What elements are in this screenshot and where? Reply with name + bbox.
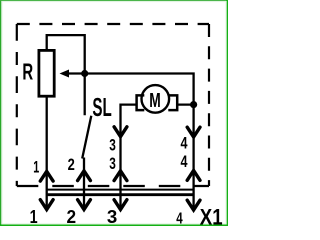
arrow down column 4 (below connector) — [187, 200, 200, 210]
wire: motor right lead to column 4 — [177, 103, 193, 105]
wire: column 1 resistor bottom down to connector — [46, 96, 48, 210]
svg-text:2: 2 — [67, 207, 77, 226]
svg-text:3: 3 — [109, 155, 116, 173]
svg-text:R: R — [22, 59, 33, 85]
connector X1 lower rail — [47, 193, 195, 196]
svg-text:M: M — [149, 89, 161, 112]
wire: column 2 below switch — [83, 158, 85, 210]
svg-text:SL: SL — [92, 94, 111, 122]
arrow up column 2 — [78, 171, 91, 181]
motor M — [137, 85, 178, 113]
wire: column 4 down to connector — [192, 105, 194, 210]
motor circle — [142, 85, 170, 113]
arrow down column 3 (below connector) — [114, 200, 127, 210]
svg-text:X1: X1 — [200, 204, 223, 226]
arrow down column 2 (below connector) — [78, 200, 91, 210]
svg-text:4: 4 — [181, 153, 189, 171]
dashed enclosure top edge — [17, 23, 209, 25]
wire: junction to motor branch (top horizontal) — [85, 74, 194, 105]
wire: motor left lead to column 3 — [121, 105, 137, 210]
svg-text:2: 2 — [68, 156, 75, 174]
junction dot at motor right — [190, 101, 197, 108]
svg-text:3: 3 — [107, 207, 117, 226]
arrow down column 1 (below connector) — [40, 200, 53, 210]
connector X1 upper rail — [47, 189, 195, 191]
svg-text:1: 1 — [33, 158, 39, 176]
wiper arrow into resistor — [68, 72, 85, 74]
dashed enclosure right edge — [208, 24, 210, 186]
arrow up column 3 — [114, 171, 127, 181]
switch SL blade — [82, 116, 91, 159]
svg-text:4: 4 — [181, 134, 189, 152]
green frame — [0, 0, 1, 226]
svg-text:3: 3 — [109, 137, 116, 155]
motor left brush bracket — [137, 95, 145, 110]
arrow down column 4 (from motor) — [187, 127, 200, 137]
arrow up column 4 — [187, 171, 200, 181]
resistor R — [39, 50, 54, 96]
motor right brush bracket — [168, 95, 177, 110]
dashed enclosure bottom edge — [17, 185, 209, 187]
svg-text:1: 1 — [30, 207, 38, 226]
svg-text:4: 4 — [176, 210, 183, 226]
dashed enclosure left edge — [16, 24, 18, 186]
arrow up column 1 — [40, 171, 53, 181]
junction dot at wiper node — [81, 70, 88, 77]
wire: resistor top to junction column — [47, 35, 85, 115]
arrow down column 3 (from motor) — [114, 127, 127, 137]
